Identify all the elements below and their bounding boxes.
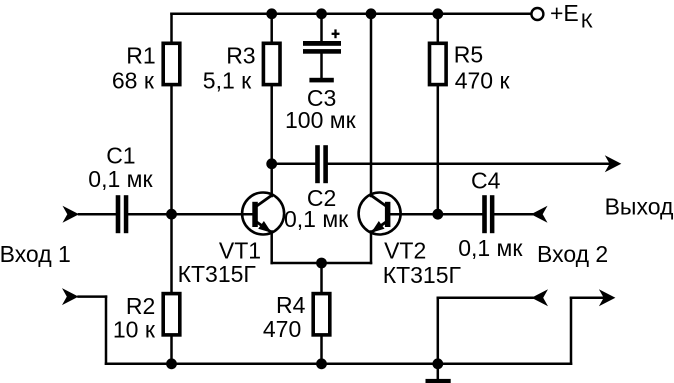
wire C3 lower stub to chassis bar: [320, 54, 323, 79]
wire C4 to input 2 arrow: [494, 213, 532, 216]
svg-text:R4: R4: [276, 292, 306, 318]
node top rail R5 junction: [432, 8, 443, 19]
node bottom rail R4 junction: [316, 358, 327, 369]
wire output line right of C2 to output arrow: [328, 163, 610, 166]
node top rail R3 junction: [266, 8, 277, 19]
capacitor C1: [116, 195, 129, 233]
node emitter rail R4 junction: [316, 258, 327, 269]
wire input 1 to C1: [79, 213, 116, 216]
svg-text:0,1 мк: 0,1 мк: [458, 235, 523, 261]
arrow aux input 2: [532, 289, 549, 306]
svg-text:470: 470: [263, 316, 301, 342]
capacitor C3 electrolytic: [303, 41, 341, 54]
node A R3/VT1 collector/C2 junction: [266, 158, 277, 169]
wire VT2 collector column from top rail: [370, 14, 373, 196]
svg-text:C4: C4: [471, 168, 501, 194]
svg-text:0,1 мк: 0,1 мк: [284, 206, 349, 232]
wire aux input 2 horizontal: [438, 297, 533, 300]
arrow aux input 1: [62, 288, 79, 305]
resistor R5: [430, 43, 447, 84]
wire ground stub: [437, 364, 440, 379]
wire right output ground horizontal: [571, 297, 604, 300]
wire VT2 emitter vertical: [370, 232, 373, 264]
resistor R1: [163, 43, 180, 84]
wire VT1 collector vertical: [270, 164, 273, 196]
wire R5 top lead: [437, 14, 440, 42]
wire aux input 1 vertical drop: [105, 297, 108, 364]
wire R2 top lead from C1 node: [170, 214, 173, 292]
node top rail C3 junction: [316, 8, 327, 19]
wire R2 bottom lead: [170, 336, 173, 363]
wire R4 bottom lead: [320, 336, 323, 363]
svg-text:10 к: 10 к: [113, 316, 156, 342]
svg-text:КТ315Г: КТ315Г: [383, 262, 462, 288]
wire R3 top lead: [270, 14, 273, 42]
wire bottom ground rail: [106, 363, 571, 366]
capacitor C4: [482, 195, 494, 233]
wire common emitter rail: [272, 262, 371, 265]
wire R1 top lead: [170, 14, 173, 42]
svg-text:100 мк: 100 мк: [285, 107, 357, 133]
wire aux input 1 horizontal: [79, 295, 107, 298]
svg-text:VT1: VT1: [219, 238, 261, 264]
svg-text:Вход 1: Вход 1: [0, 241, 71, 267]
arrow right ground output: [599, 289, 616, 306]
svg-text:Вход 2: Вход 2: [537, 241, 608, 267]
resistor R4: [313, 294, 330, 335]
node bottom rail ground junction: [432, 358, 443, 369]
svg-text:C1: C1: [106, 142, 135, 168]
resistor R3: [263, 43, 280, 84]
wire R4 top lead: [320, 263, 323, 292]
svg-text:Выход: Выход: [605, 194, 674, 220]
wire right output ground riser: [570, 298, 573, 364]
wire VT2 base to C4: [390, 213, 482, 216]
wire R1 bottom lead to C1 node: [170, 86, 173, 214]
node R5/VT2 base/C4 junction: [432, 209, 443, 220]
resistor R2: [163, 294, 180, 335]
transistor VT1: [242, 193, 284, 235]
svg-text:0,1 мк: 0,1 мк: [88, 166, 153, 192]
wire top supply rail: [172, 13, 532, 16]
svg-text:VT2: VT2: [384, 238, 426, 264]
wire C3 top lead: [320, 14, 323, 42]
svg-text:68 к: 68 к: [112, 67, 155, 93]
svg-text:R5: R5: [454, 42, 483, 68]
wire VT1 emitter vertical: [270, 232, 273, 264]
chassis bar of C3: [309, 78, 333, 83]
node C1/R1/R2/VT1 base junction: [166, 209, 177, 220]
transistor VT2: [359, 193, 401, 235]
svg-text:R3: R3: [226, 43, 255, 69]
svg-text:КТ315Г: КТ315Г: [178, 261, 257, 287]
svg-text:R1: R1: [126, 43, 155, 69]
svg-text:470 к: 470 к: [455, 67, 511, 93]
wire output line left of C2: [272, 163, 316, 166]
svg-text:5,1 к: 5,1 к: [203, 67, 252, 93]
capacitor C2: [315, 145, 328, 183]
wire R5 bottom lead to base node: [437, 86, 440, 214]
terminal +Ek circle: [531, 8, 543, 20]
node bottom rail R2 junction: [166, 358, 177, 369]
wire R3 bottom lead to node A: [270, 86, 273, 164]
arrow input 2 at C4: [531, 206, 548, 223]
node top rail VT2 collector junction: [366, 8, 377, 19]
arrow output: [605, 155, 622, 172]
svg-text:R2: R2: [126, 293, 155, 319]
wire C1 to VT1 base: [128, 213, 252, 216]
arrow input 1: [63, 206, 80, 223]
plus sign of C3: [332, 29, 340, 38]
wire aux input 2 vertical riser: [437, 298, 440, 364]
ground chassis bar: [426, 379, 451, 383]
